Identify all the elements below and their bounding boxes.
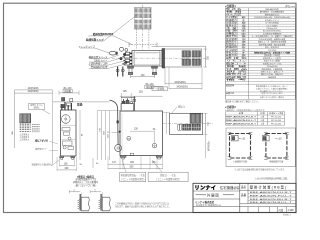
svg-text:顧客: 顧客 — [234, 185, 240, 190]
svg-text:440(N200): 440(N200) — [28, 88, 39, 90]
label kitchen remocon — [29, 103, 45, 109]
svg-text:FFT-4U-300: FFT-4U-300 — [271, 120, 281, 122]
front view: top pipe fittings — [121, 104, 134, 112]
leader to box1 — [122, 160, 126, 172]
svg-text:340(N300): 340(N300) — [28, 91, 39, 93]
rear view rect with grille — [170, 113, 203, 134]
flue dim line — [129, 44, 157, 46]
svg-text:440(N200): 440(N200) — [174, 81, 185, 84]
top dim line to flue center — [152, 45, 206, 47]
flue centerline — [142, 5, 144, 50]
svg-text:RBF-A80S2N-FU-R-T: RBF-A80S2N-FU-R-T — [250, 191, 293, 194]
svg-text:●仕様表1: ●仕様表1 — [225, 4, 236, 8]
bottom-left circle — [115, 145, 122, 152]
top view: heater body — [132, 51, 162, 67]
svg-text:ΦA: ΦA — [11, 131, 14, 135]
gas valve circle — [127, 136, 131, 140]
front view feet — [120, 156, 126, 158]
rotated note below rear view — [205, 134, 207, 158]
leader label above rear view — [172, 107, 178, 114]
left vertical dim — [14, 90, 16, 148]
svg-text:取扱: 取扱 — [77, 102, 83, 106]
top view: side exhaust duct — [165, 49, 202, 67]
svg-text:●仕様表2: ●仕様表2 — [225, 105, 236, 109]
boxed labels under front view — [120, 172, 146, 182]
svg-text:11.6kW(10,000kcal/h)・5.8kW(5,0: 11.6kW(10,000kcal/h)・5.8kW(5,000kcal/h) — [254, 16, 291, 19]
fitting dots — [123, 53, 125, 55]
wall vent lower rows — [20, 123, 31, 125]
svg-text:リモコン: リモコン — [226, 60, 247, 63]
drawing border frame — [4, 3, 297, 212]
rear view centerline — [163, 123, 214, 125]
vertical extension x52.5 — [52, 90, 54, 165]
top view: exhaust grille 2x2 hatched — [182, 51, 191, 57]
svg-text:340(N300): 340(N300) — [176, 86, 187, 89]
svg-text:140: 140 — [141, 74, 146, 77]
svg-text:品番: 品番 — [241, 193, 247, 197]
vertical dim right of side view — [92, 158, 94, 168]
front view: main body — [120, 111, 163, 156]
wall reference line — [53, 101, 110, 103]
dim line x205.5 for 215 — [205, 49, 207, 67]
side view: fan circle — [62, 115, 71, 124]
svg-text:警報器取付位置: 警報器取付位置 — [91, 65, 108, 69]
leader to box2 — [152, 160, 162, 172]
spec table 2 grid — [225, 111, 284, 113]
top view: mounting plate (dark) — [162, 49, 165, 69]
dim 34 near right top — [163, 111, 171, 113]
top view: feet — [128, 66, 134, 68]
top view horizontal centerline — [112, 57, 208, 59]
svg-text:RBF-A80S2N-RU-R-T: RBF-A80S2N-RU-R-T — [226, 122, 257, 125]
svg-text:リンナイ: リンナイ — [195, 185, 217, 191]
sleeve details — [69, 191, 80, 193]
svg-text:50Hz: 50Hz — [241, 31, 245, 33]
svg-text:AC100V(50Hz/60Hz): AC100V(50Hz/60Hz) — [263, 30, 281, 33]
lower connection circle — [152, 143, 156, 147]
svg-text:尺度: 尺度 — [279, 208, 284, 212]
svg-text:RBF-A80S2N-RU-L-T: RBF-A80S2N-RU-L-T — [250, 201, 293, 204]
svg-text:品名: 品名 — [241, 185, 247, 189]
dim 140 under feet — [131, 76, 155, 78]
svg-text:0.1~0.75MPa: 0.1~0.75MPa — [266, 25, 278, 27]
title block frame — [193, 183, 296, 212]
side view: mid parts — [62, 128, 70, 131]
side view: body — [61, 110, 77, 156]
boxed note top-right of front view — [152, 87, 168, 91]
svg-text:150: 150 — [139, 90, 144, 93]
svg-text:RBF-A80S2N-RU-R-T: RBF-A80S2N-RU-R-T — [250, 198, 293, 201]
down pipes below cluster — [117, 67, 119, 77]
svg-text:RBF-A80S2N-FU-L-T: RBF-A80S2N-FU-L-T — [250, 195, 293, 198]
svg-text:K808D-1: K808D-1 — [283, 214, 292, 216]
svg-text:RBF-A80S2N-FU-R-T: RBF-A80S2N-FU-R-T — [226, 116, 257, 119]
side view: top pipes — [61, 104, 63, 111]
svg-text:壁掛け装置(RB型): 壁掛け装置(RB型) — [250, 184, 288, 189]
svg-text:RBF-A80S2N-FU-L-T: RBF-A80S2N-FU-L-T — [226, 119, 257, 122]
svg-text:220: 220 — [134, 128, 139, 131]
svg-text:125: 125 — [123, 90, 128, 93]
svg-text:60Hz: 60Hz — [241, 33, 245, 35]
svg-text:FFT-4U-200: FFT-4U-200 — [271, 117, 281, 119]
rear view lower grille cells — [183, 124, 192, 130]
gaikanzu row — [196, 194, 207, 196]
vertical flue pipe with hatched cowl — [135, 8, 152, 30]
top view: pipe fittings cluster — [126, 52, 130, 54]
spec table 1 grid — [225, 7, 295, 9]
wall mount diagram — [230, 134, 251, 159]
side view feet — [60, 156, 64, 158]
svg-text:給排気筒トップ: 給排気筒トップ — [85, 37, 104, 41]
svg-text:FFT-4U-400: FFT-4U-400 — [271, 123, 281, 125]
drain hose arc — [110, 100, 119, 144]
svg-text:住宅機器: 住宅機器 — [220, 185, 234, 190]
dim line right of side view — [79, 110, 81, 160]
wall mount diagram — [266, 134, 287, 159]
vertical dims left of front view — [97, 110, 120, 112]
svg-text:リンナイ株式会社: リンナイ株式会社 — [195, 200, 215, 204]
installation diagrams box — [226, 128, 295, 167]
svg-text:ドレンチューブ: ドレンチューブ — [78, 44, 95, 48]
dim 241 right of rear view — [205, 113, 207, 134]
rear view dark grille top — [190, 114, 201, 124]
dim line under 45~130 — [59, 92, 79, 94]
wall vent hatched block — [20, 114, 31, 123]
svg-text:外 観 図: 外 観 図 — [207, 192, 219, 197]
drain tube oval fitting — [109, 51, 116, 55]
flue dashed outline — [136, 29, 138, 49]
svg-text:1:100: 1:100 — [288, 209, 295, 212]
